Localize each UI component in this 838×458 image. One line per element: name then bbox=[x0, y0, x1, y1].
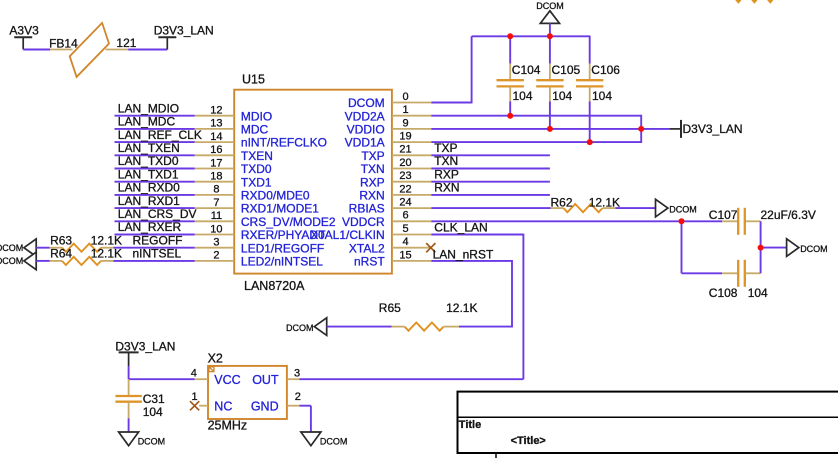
wire DCOM to R64 bbox=[36, 260, 49, 262]
net label LAN_MDC bbox=[118, 115, 176, 129]
svg-text:FB14: FB14 bbox=[49, 36, 78, 50]
wire net LAN_RXER bbox=[115, 234, 195, 236]
pin 10 RXER/PHYAD0 of U15 bbox=[195, 223, 325, 242]
wire net LAN_nRST bbox=[431, 260, 512, 327]
wire net CLK_LAN bbox=[300, 234, 524, 380]
no-connect X on pin 1 bbox=[190, 401, 199, 410]
wire net LAN_TXD0 bbox=[115, 168, 195, 170]
svg-text:Title: Title bbox=[459, 419, 481, 431]
svg-text:1: 1 bbox=[192, 391, 198, 403]
wire net TXP bbox=[431, 154, 550, 156]
svg-text:DCOM: DCOM bbox=[0, 256, 23, 266]
svg-text:RXP: RXP bbox=[360, 175, 385, 189]
svg-text:R62: R62 bbox=[551, 195, 573, 209]
power port DCOM (right of C107) bbox=[787, 239, 828, 257]
wire net TXN bbox=[431, 168, 550, 170]
pin 4 VCC of X2 bbox=[191, 367, 241, 387]
pin 22 RXN of U15 bbox=[359, 183, 431, 202]
wire C108 up to DCOM node bbox=[760, 221, 762, 273]
svg-text:DCOM: DCOM bbox=[536, 1, 564, 11]
svg-text:104: 104 bbox=[513, 89, 533, 103]
svg-text:12: 12 bbox=[210, 105, 222, 117]
svg-text:XTAL1/CLKIN: XTAL1/CLKIN bbox=[310, 228, 384, 242]
svg-text:TXN: TXN bbox=[434, 154, 458, 168]
svg-text:LAN_nRST: LAN_nRST bbox=[433, 247, 494, 261]
wire net LAN_TXD1 bbox=[115, 181, 195, 183]
capacitor C105 104 bbox=[536, 36, 580, 129]
pin 8 RXD0/MDE0 of U15 bbox=[195, 184, 310, 203]
svg-text:2: 2 bbox=[213, 250, 219, 262]
svg-text:TXD1: TXD1 bbox=[241, 175, 272, 189]
svg-text:C31: C31 bbox=[143, 392, 165, 406]
pin 5 XTAL1/CLKIN of U15 bbox=[310, 223, 431, 242]
svg-text:104: 104 bbox=[143, 405, 163, 419]
svg-text:LAN_MDC: LAN_MDC bbox=[118, 115, 176, 129]
title block frame bbox=[458, 392, 838, 458]
svg-text:22uF/6.3V: 22uF/6.3V bbox=[761, 208, 816, 222]
pin 3 LED1/REGOFF of U15 bbox=[195, 237, 325, 256]
designator U15 bbox=[242, 73, 265, 87]
svg-text:12.1K: 12.1K bbox=[589, 195, 620, 209]
svg-text:RXD1/MODE1: RXD1/MODE1 bbox=[241, 202, 319, 216]
junction VDD join bbox=[638, 126, 644, 132]
svg-text:LAN_TXEN: LAN_TXEN bbox=[118, 141, 180, 155]
wire R64 to pin 2 bbox=[114, 260, 195, 262]
svg-text:15: 15 bbox=[399, 249, 411, 261]
resistor R63 12.1K bbox=[50, 234, 123, 252]
svg-text:LED1/REGOFF: LED1/REGOFF bbox=[241, 241, 324, 255]
capacitor C31 104 bbox=[115, 379, 165, 432]
wire net LAN_CRS_DV bbox=[115, 220, 195, 222]
svg-text:RXN: RXN bbox=[434, 181, 459, 195]
svg-text:CLK_LAN: CLK_LAN bbox=[434, 220, 487, 234]
wire DCOM stem bbox=[549, 23, 551, 36]
net label CLK_LAN bbox=[434, 220, 487, 234]
no-connect X on pin 4 bbox=[426, 243, 435, 252]
svg-text:104: 104 bbox=[592, 89, 612, 103]
pin 20 TXN of U15 bbox=[361, 157, 432, 176]
junction C107/C108/DCOM bbox=[758, 245, 764, 251]
svg-text:TXP: TXP bbox=[434, 141, 457, 155]
svg-text:DCOM: DCOM bbox=[348, 96, 385, 110]
junction rail/C104 bbox=[507, 33, 513, 39]
net label LAN_RXER bbox=[118, 220, 182, 234]
resistor R65 12.1K bbox=[379, 301, 478, 331]
svg-text:MDIO: MDIO bbox=[241, 109, 272, 123]
svg-text:23: 23 bbox=[399, 170, 411, 182]
wire VDDCR row bbox=[431, 220, 681, 222]
wire FB14 to D3V3_LAN bbox=[128, 49, 167, 51]
svg-text:TXD0: TXD0 bbox=[241, 162, 272, 176]
svg-text:RXP: RXP bbox=[434, 167, 459, 181]
junction C105/VDDIO bbox=[547, 126, 553, 132]
pin 23 RXP of U15 bbox=[360, 170, 431, 189]
arrowhead 1 (cut off, top right) bbox=[735, 0, 741, 4]
svg-text:LED2/nINTSEL: LED2/nINTSEL bbox=[241, 255, 323, 269]
svg-text:TXN: TXN bbox=[361, 162, 385, 176]
wire net LAN_RXD0 bbox=[115, 194, 195, 196]
svg-text:13: 13 bbox=[210, 118, 222, 130]
wire A3V3 to FB14 bbox=[23, 49, 50, 51]
svg-text:LAN_REF_CLK: LAN_REF_CLK bbox=[118, 128, 202, 142]
IC U15 LAN8720A body bbox=[234, 90, 392, 274]
pin 14 nINT/REFCLKO of U15 bbox=[195, 131, 327, 150]
svg-text:21: 21 bbox=[399, 144, 411, 156]
svg-text:8: 8 bbox=[213, 184, 219, 196]
wire DCOM to R65 bbox=[327, 326, 392, 328]
wire net RXN bbox=[431, 194, 550, 196]
svg-text:5: 5 bbox=[402, 223, 408, 235]
title block value <Title> bbox=[511, 435, 546, 447]
power port DCOM (below C31) bbox=[119, 432, 166, 446]
svg-text:A3V3: A3V3 bbox=[9, 24, 39, 38]
svg-text:VDDIO: VDDIO bbox=[347, 123, 385, 137]
power port D3V3_LAN (right) bbox=[670, 120, 743, 138]
svg-text:MDC: MDC bbox=[241, 123, 269, 137]
svg-text:25MHz: 25MHz bbox=[208, 418, 248, 432]
svg-text:VCC: VCC bbox=[214, 373, 240, 387]
pin 19 VDD1A of U15 bbox=[345, 131, 432, 150]
designator X2 bbox=[208, 351, 223, 365]
svg-text:LAN_MDIO: LAN_MDIO bbox=[118, 101, 179, 115]
svg-text:LAN_RXD1: LAN_RXD1 bbox=[118, 194, 180, 208]
wire net LAN_RXD1 bbox=[115, 207, 195, 209]
wire D3V3_LAN to VCC bbox=[129, 378, 195, 380]
wire VDDIO row bbox=[431, 128, 670, 130]
svg-text:nINTSEL: nINTSEL bbox=[133, 247, 182, 261]
net label LAN_CRS_DV bbox=[118, 207, 197, 221]
pin 2 LED2/nINTSEL of U15 bbox=[195, 250, 324, 269]
wire pin0 to rail bbox=[431, 36, 471, 103]
svg-text:VDD1A: VDD1A bbox=[345, 136, 385, 150]
pin 24 RBIAS of U15 bbox=[349, 197, 432, 216]
svg-text:C105: C105 bbox=[552, 63, 581, 77]
svg-text:DCOM: DCOM bbox=[669, 205, 697, 215]
wire D3V3_LAN down bbox=[128, 366, 130, 379]
svg-text:3: 3 bbox=[213, 237, 219, 249]
power port DCOM (below X2) bbox=[301, 432, 348, 446]
svg-text:121: 121 bbox=[116, 36, 136, 50]
net label RXP bbox=[434, 167, 459, 181]
ferrite bead FB14 bbox=[49, 23, 137, 77]
svg-text:22: 22 bbox=[399, 183, 411, 195]
capacitor C107 22uF/6.3V bbox=[682, 208, 816, 235]
svg-text:24: 24 bbox=[399, 197, 411, 209]
power port DCOM (left of R64) bbox=[0, 252, 36, 270]
svg-text:REGOFF: REGOFF bbox=[133, 234, 183, 248]
capacitor C108 104 bbox=[709, 260, 768, 300]
svg-text:<Title>: <Title> bbox=[511, 435, 546, 447]
pin 9 VDDIO of U15 bbox=[347, 117, 432, 136]
svg-text:CRS_DV/MODE2: CRS_DV/MODE2 bbox=[241, 215, 336, 229]
svg-text:TXEN: TXEN bbox=[241, 149, 273, 163]
svg-text:16: 16 bbox=[210, 144, 222, 156]
wire net LAN_TXEN bbox=[115, 154, 195, 156]
svg-text:6: 6 bbox=[402, 210, 408, 222]
pin 2 GND of X2 bbox=[251, 391, 301, 413]
svg-text:RXN: RXN bbox=[359, 189, 384, 203]
power port DCOM (left of R63) bbox=[0, 239, 36, 257]
svg-text:R65: R65 bbox=[379, 301, 401, 315]
wire vertical join VDD rails bbox=[640, 115, 642, 143]
arrowhead 2 (cut off, top right) bbox=[751, 0, 757, 4]
svg-text:TXP: TXP bbox=[361, 149, 384, 163]
svg-text:LAN_TXD1: LAN_TXD1 bbox=[118, 167, 179, 181]
junction C104/VDD2A bbox=[507, 113, 513, 119]
part name LAN8720A bbox=[244, 279, 305, 293]
junction VDDCR split bbox=[679, 218, 685, 224]
wire R63 to pin 3 bbox=[114, 247, 195, 249]
net label TXP bbox=[434, 141, 457, 155]
pin 13 MDC of U15 bbox=[195, 118, 269, 137]
svg-text:LAN_RXER: LAN_RXER bbox=[118, 220, 182, 234]
svg-text:17: 17 bbox=[210, 157, 222, 169]
svg-text:18: 18 bbox=[210, 171, 222, 183]
svg-text:NC: NC bbox=[214, 399, 232, 413]
svg-text:3: 3 bbox=[294, 367, 300, 379]
svg-text:LAN8720A: LAN8720A bbox=[244, 279, 305, 293]
svg-text:104: 104 bbox=[748, 286, 768, 300]
pin 4 XTAL2 of U15 bbox=[349, 236, 431, 255]
wire net LAN_REF_CLK bbox=[115, 141, 195, 143]
svg-text:C106: C106 bbox=[591, 63, 620, 77]
power port DCOM (left of R65) bbox=[286, 318, 327, 336]
pin 18 TXD1 of U15 bbox=[195, 171, 272, 190]
svg-text:LAN_TXD0: LAN_TXD0 bbox=[118, 154, 179, 168]
wire net RXP bbox=[431, 181, 550, 183]
svg-text:D3V3_LAN: D3V3_LAN bbox=[115, 339, 175, 353]
junction rail/C105/DCOM bbox=[547, 33, 553, 39]
svg-text:RBIAS: RBIAS bbox=[349, 202, 385, 216]
wire R65 to LAN_nRST bbox=[459, 326, 513, 328]
pin 3 OUT of X2 bbox=[252, 367, 300, 387]
net label RXN bbox=[434, 181, 459, 195]
junction C106/VDD1A bbox=[587, 139, 593, 145]
svg-text:RXD0/MDE0: RXD0/MDE0 bbox=[241, 189, 310, 203]
svg-text:11: 11 bbox=[211, 210, 222, 222]
pin 7 RXD1/MODE1 of U15 bbox=[195, 197, 320, 216]
pin 15 nRST of U15 bbox=[354, 249, 431, 268]
wire VDD2A row bbox=[431, 115, 641, 117]
svg-text:R64: R64 bbox=[50, 247, 72, 261]
net label TXN bbox=[434, 154, 458, 168]
value 25MHz bbox=[208, 418, 248, 432]
wire RBIAS to R62 bbox=[431, 207, 550, 209]
pin 0 DCOM of U15 bbox=[348, 91, 431, 110]
svg-text:GND: GND bbox=[251, 399, 279, 413]
svg-text:OUT: OUT bbox=[252, 373, 279, 387]
svg-text:DCOM: DCOM bbox=[138, 436, 166, 446]
power port D3V3_LAN (top) bbox=[154, 24, 214, 50]
resistor R62 12.1K bbox=[551, 195, 621, 212]
svg-text:DCOM: DCOM bbox=[286, 323, 314, 333]
svg-text:nINT/REFCLKO: nINT/REFCLKO bbox=[241, 136, 327, 150]
wire C107 branch down bbox=[682, 222, 723, 273]
wire R62 to DCOM bbox=[615, 207, 655, 209]
svg-text:XTAL2: XTAL2 bbox=[349, 241, 385, 255]
wire GND to DCOM bbox=[300, 406, 311, 432]
svg-text:0: 0 bbox=[402, 91, 408, 103]
pin 12 MDIO of U15 bbox=[195, 105, 273, 124]
svg-text:X2: X2 bbox=[208, 351, 223, 365]
wire net LAN_MDC bbox=[115, 128, 195, 130]
pin 16 TXEN of U15 bbox=[195, 144, 273, 163]
svg-text:12.1K: 12.1K bbox=[91, 234, 122, 248]
pin 1 VDD2A of U15 bbox=[345, 104, 432, 123]
svg-text:10: 10 bbox=[210, 223, 222, 235]
pin 17 TXD0 of U15 bbox=[195, 157, 272, 176]
net label LAN_TXEN bbox=[118, 141, 180, 155]
svg-text:LAN_CRS_DV: LAN_CRS_DV bbox=[118, 207, 197, 221]
svg-text:19: 19 bbox=[399, 131, 411, 143]
svg-text:DCOM: DCOM bbox=[320, 436, 348, 446]
svg-text:C104: C104 bbox=[512, 63, 541, 77]
net label LAN_REF_CLK bbox=[118, 128, 202, 142]
svg-text:4: 4 bbox=[402, 236, 408, 248]
svg-text:12.1K: 12.1K bbox=[446, 301, 477, 315]
capacitor C106 104 bbox=[576, 36, 620, 142]
svg-text:VDD2A: VDD2A bbox=[345, 109, 385, 123]
svg-text:1: 1 bbox=[402, 104, 408, 116]
svg-text:104: 104 bbox=[552, 89, 572, 103]
wire top rail bbox=[472, 35, 591, 37]
svg-text:nRST: nRST bbox=[354, 255, 385, 269]
net label LAN_RXD0 bbox=[118, 181, 180, 195]
power port D3V3_LAN (bottom) bbox=[115, 339, 175, 366]
svg-text:DCOM: DCOM bbox=[0, 243, 23, 253]
svg-text:C108: C108 bbox=[709, 286, 738, 300]
svg-text:9: 9 bbox=[402, 117, 408, 129]
wire net LAN_MDIO bbox=[115, 115, 195, 117]
resistor R64 12.1K bbox=[50, 247, 123, 265]
svg-text:D3V3_LAN: D3V3_LAN bbox=[683, 122, 743, 136]
net label nINTSEL bbox=[133, 247, 182, 261]
net label LAN_TXD1 bbox=[118, 167, 179, 181]
net label LAN_RXD1 bbox=[118, 194, 180, 208]
net label LAN_MDIO bbox=[118, 101, 179, 115]
svg-text:7: 7 bbox=[213, 197, 219, 209]
pin 11 CRS_DV/MODE2 of U15 bbox=[195, 210, 336, 229]
net label LAN_TXD0 bbox=[118, 154, 179, 168]
power port A3V3 bbox=[9, 24, 39, 50]
capacitor C104 104 bbox=[497, 36, 541, 115]
svg-text:20: 20 bbox=[399, 157, 411, 169]
svg-text:LAN_RXD0: LAN_RXD0 bbox=[118, 181, 180, 195]
svg-text:VDDCR: VDDCR bbox=[342, 215, 385, 229]
svg-text:U15: U15 bbox=[242, 73, 265, 87]
net label REGOFF bbox=[133, 234, 183, 248]
svg-text:DCOM: DCOM bbox=[800, 244, 828, 254]
power port DCOM (right of R62) bbox=[656, 199, 697, 217]
svg-text:2: 2 bbox=[295, 391, 301, 403]
svg-text:12.1K: 12.1K bbox=[91, 247, 122, 261]
pin 21 TXP of U15 bbox=[361, 144, 431, 163]
arrowhead 3 (cut off, top right) bbox=[767, 0, 773, 4]
svg-text:R63: R63 bbox=[50, 234, 72, 248]
power port DCOM (top) bbox=[536, 1, 564, 23]
wire node to DCOM bbox=[761, 247, 787, 249]
wire VDD1A row bbox=[431, 141, 641, 143]
pin 1 NC of X2 bbox=[192, 391, 233, 413]
net label LAN_nRST bbox=[433, 247, 494, 261]
svg-text:C107: C107 bbox=[709, 208, 738, 222]
svg-text:4: 4 bbox=[191, 367, 197, 379]
title block label Title bbox=[459, 419, 481, 431]
svg-text:14: 14 bbox=[210, 131, 222, 143]
pin 6 VDDCR of U15 bbox=[342, 210, 431, 229]
svg-text:D3V3_LAN: D3V3_LAN bbox=[154, 24, 214, 38]
crystal oscillator X2 body bbox=[208, 366, 287, 419]
wire DCOM to R63 bbox=[36, 247, 49, 249]
